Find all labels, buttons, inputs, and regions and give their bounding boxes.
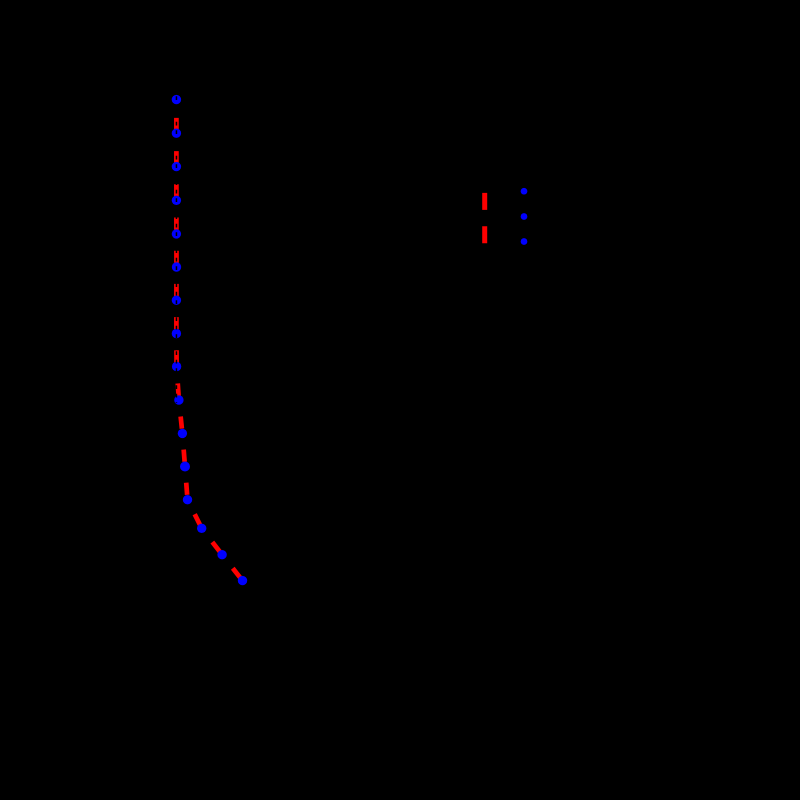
blue point marker 15 [217, 550, 226, 559]
red dashed series line (lty=2, thick) [176, 100, 242, 581]
blue point marker 1 [172, 95, 181, 104]
legend red dashed line sample [482, 193, 487, 244]
blue point marker 11 [178, 429, 187, 438]
blue point marker 14 [197, 524, 206, 533]
blue point marker 12 [180, 462, 190, 472]
blue point marker 4 [172, 196, 181, 205]
blue point marker 16 [238, 576, 247, 585]
blue point marker 7 [172, 296, 181, 305]
legend blue dot 3 [521, 238, 528, 245]
legend blue dot 2 [521, 213, 528, 220]
blue point marker 5 [172, 229, 181, 238]
blue point marker 2 [172, 129, 181, 138]
thin black dashed overlay line (second series, visible only over colors) [175, 96, 177, 403]
blue point marker 9 [172, 362, 181, 371]
blue point marker 13 [183, 495, 192, 504]
blue point marker 8 [172, 329, 181, 338]
blue point marker 10 [174, 395, 183, 404]
blue point marker 6 [172, 262, 181, 271]
legend blue dot 1 [521, 188, 528, 195]
blue point marker 3 [172, 162, 181, 171]
